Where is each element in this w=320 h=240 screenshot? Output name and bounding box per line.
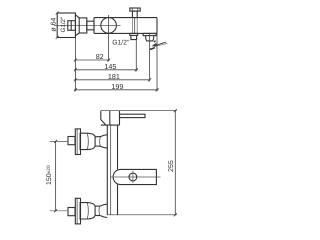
svg-text:G1/2": G1/2" <box>112 40 130 47</box>
svg-text:199: 199 <box>111 82 123 91</box>
svg-text:255: 255 <box>168 160 175 172</box>
svg-text:181: 181 <box>108 72 120 81</box>
svg-text:ø 64: ø 64 <box>50 17 57 31</box>
svg-text:150±20: 150±20 <box>46 165 53 185</box>
svg-text:G1/2": G1/2" <box>60 17 67 33</box>
svg-text:82: 82 <box>96 52 104 61</box>
svg-text:145: 145 <box>104 62 116 71</box>
